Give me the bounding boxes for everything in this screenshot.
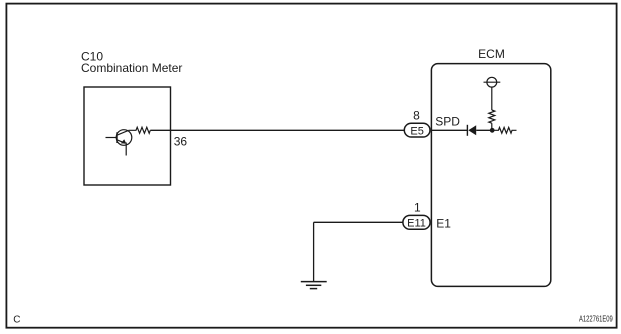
wire diode to node (476, 129, 492, 131)
resistor R1 (meter internal) (129, 127, 151, 133)
transistor Q1 emitter arrow (121, 139, 126, 143)
wire meter pin 36 to E5 (150, 129, 404, 131)
svg-text:E5: E5 (410, 125, 423, 137)
connector E11 (403, 215, 430, 229)
power symbol crossbar (484, 81, 501, 83)
transistor Q1 emitter (117, 140, 125, 143)
wire E5 to diode (431, 129, 468, 131)
svg-text:E11: E11 (407, 218, 426, 230)
svg-text:C: C (13, 314, 20, 325)
svg-text:E1: E1 (436, 216, 451, 230)
transistor Q1 base bar (116, 132, 118, 143)
svg-text:SPD: SPD (435, 114, 460, 128)
svg-text:ECM: ECM (478, 47, 505, 61)
transistor Q1 circle (116, 130, 132, 146)
resistor R3 (series, horizontal) (492, 127, 516, 133)
combination meter box (84, 87, 171, 185)
svg-text:8: 8 (413, 109, 420, 123)
transistor Q1 emitter lead (125, 143, 127, 156)
svg-text:Combination Meter: Combination Meter (81, 61, 182, 75)
transistor Q1 collector (117, 130, 129, 135)
wire resistor to node (491, 123, 493, 130)
diode D1 cathode bar (466, 125, 468, 136)
wire power to resistor (491, 87, 493, 110)
svg-text:A122761E09: A122761E09 (579, 314, 613, 323)
svg-text:36: 36 (174, 134, 188, 148)
power symbol (battery feed) circle (487, 77, 497, 87)
svg-text:1: 1 (414, 201, 421, 215)
wire ground drop (vertical) (313, 222, 315, 281)
ECM box (431, 64, 550, 287)
node junction dot (490, 128, 495, 133)
connector E5 (404, 123, 430, 137)
resistor R2 (pull-up, vertical) (489, 110, 495, 123)
transistor Q1 base lead (106, 137, 118, 139)
ground symbol (301, 282, 327, 289)
diode D1 triangle (468, 125, 476, 135)
wire E11 to ground (horizontal) (314, 221, 403, 223)
